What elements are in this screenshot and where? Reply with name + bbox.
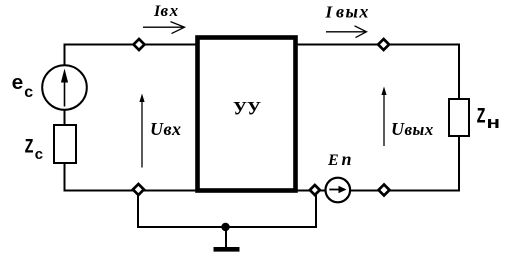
source En (circle with right arrow) — [326, 178, 351, 203]
impedance Z_н (rectangle, load) — [449, 99, 469, 136]
arrow: Uвых (output voltage, up) — [381, 87, 386, 147]
wire: ground bus horizontal — [137, 226, 317, 228]
node: output high terminal — [378, 39, 389, 50]
label Uвх — [150, 119, 182, 139]
svg-text:c: c — [24, 84, 34, 102]
label I вых (output current) — [325, 2, 370, 22]
node: En left terminal — [310, 185, 320, 195]
node: input high terminal — [134, 39, 145, 50]
wire: top-left horizontal (source to УУ input) — [64, 44, 199, 46]
svg-text:c: c — [35, 147, 44, 164]
wire: Z_н bottom down to bottom-right corner — [458, 136, 460, 192]
svg-text:Е: Е — [327, 152, 339, 169]
wire: left rail vertical (top wire down to e_c circle) — [64, 45, 66, 67]
arrow: I вых direction — [326, 26, 367, 38]
junction: ground bus tap — [221, 223, 229, 231]
wire: e_c circle bottom to Z_c top — [64, 109, 66, 126]
svg-text:п: п — [342, 149, 352, 169]
wire: top-right horizontal (УУ output to load corner) — [295, 44, 460, 46]
op-amp block УУ — [198, 38, 296, 191]
svg-text:вых: вых — [336, 2, 370, 22]
svg-text:вых: вых — [405, 120, 434, 139]
svg-text:вх: вх — [164, 119, 182, 139]
svg-text:U: U — [391, 119, 405, 139]
wire: right rail top (corner down to Z_н top) — [458, 44, 460, 101]
wire: drop from input low terminal to ground bus — [137, 191, 139, 229]
svg-text:Z: Z — [25, 137, 34, 160]
label En — [327, 149, 352, 169]
arrow: Iвх direction — [143, 22, 185, 34]
svg-text:н: н — [487, 115, 501, 134]
wire: Z_c bottom to bottom-left corner — [64, 162, 66, 192]
svg-text:вх: вх — [161, 1, 180, 20]
svg-text:I: I — [325, 3, 334, 22]
svg-text:Z: Z — [477, 105, 486, 130]
node: En right terminal — [379, 185, 390, 196]
label e_c — [12, 73, 34, 102]
label Z_н — [477, 105, 501, 135]
wire: drop from En-row terminal to ground bus — [315, 195, 317, 228]
source e_c (circle with up arrow) — [42, 65, 87, 110]
label Iвх (input current) — [153, 1, 180, 20]
wire: En row horizontal (УУ bottom output through En to load) — [295, 190, 460, 192]
impedance Z_c (rectangle) — [54, 125, 76, 163]
node: input low terminal — [133, 184, 144, 195]
arrow: Uвх (input voltage, up) — [139, 94, 144, 168]
label Z_c — [25, 137, 44, 165]
ground — [214, 227, 240, 249]
wire: bottom-left horizontal (to УУ input low terminal) — [64, 190, 199, 192]
label Uвых — [391, 119, 434, 139]
svg-text:U: U — [150, 119, 164, 139]
svg-text:e: e — [12, 73, 24, 96]
svg-text:УУ: УУ — [233, 99, 261, 120]
